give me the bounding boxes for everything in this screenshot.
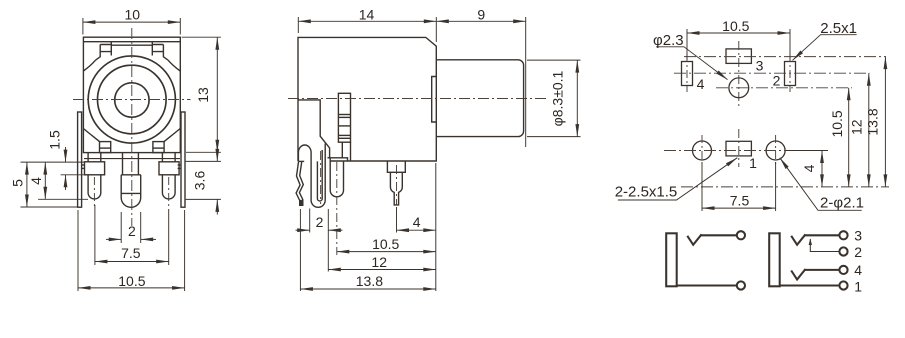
front view center pin xyxy=(122,153,124,175)
dim 5 left front view xyxy=(21,206,78,208)
schematic pin4 circle xyxy=(839,266,847,274)
dim 10.5 footprint right xyxy=(848,88,850,187)
svg-text:2: 2 xyxy=(854,244,862,260)
footprint right slot pad 2 xyxy=(785,62,796,86)
dim 7.5 bottom front view xyxy=(94,205,96,265)
svg-text:10.5: 10.5 xyxy=(372,236,399,252)
schematic left bottom wire xyxy=(677,284,737,286)
leader 2.5x1 xyxy=(793,35,857,61)
footprint bottom right hole xyxy=(766,141,785,160)
footprint slot vertical ticks xyxy=(686,54,688,92)
svg-text:13.8: 13.8 xyxy=(865,108,881,135)
front view underside line xyxy=(84,158,180,160)
leader 2-2.5x1.5 xyxy=(618,158,737,200)
side view leg3 xyxy=(387,161,405,205)
svg-text:10.5: 10.5 xyxy=(829,110,845,137)
svg-text:9: 9 xyxy=(477,6,485,22)
front view horizontal centerline xyxy=(73,99,191,101)
front view bottom corner fillets xyxy=(83,129,99,142)
svg-text:4: 4 xyxy=(413,214,421,230)
front view left flange xyxy=(78,112,82,207)
svg-text:12: 12 xyxy=(371,254,387,270)
svg-text:5: 5 xyxy=(10,179,26,187)
svg-text:10.5: 10.5 xyxy=(722,18,749,34)
front view body xyxy=(83,37,180,152)
footprint vertical centerline top xyxy=(738,41,740,109)
svg-text:φ2.3: φ2.3 xyxy=(653,32,684,49)
svg-text:3.6: 3.6 xyxy=(192,171,208,191)
footprint centerline side slot row xyxy=(674,72,870,74)
schematic pin2 circle xyxy=(839,247,847,255)
dim 10.5 side view xyxy=(337,251,436,253)
dim extension line shoulders left xyxy=(21,161,85,163)
svg-text:3: 3 xyxy=(854,227,862,243)
svg-text:4: 4 xyxy=(28,177,44,185)
svg-text:2-φ2.1: 2-φ2.1 xyxy=(820,194,864,211)
dim 3.6 right front view xyxy=(186,160,221,162)
schematic pin3 circle xyxy=(839,231,847,239)
dim 7.5 footprint xyxy=(701,162,703,211)
dim 4 side view xyxy=(435,163,437,291)
side view body outline xyxy=(298,37,436,161)
footprint centerline bottom row xyxy=(664,150,828,152)
side view leg2 xyxy=(330,158,343,197)
front view right leg xyxy=(161,153,163,162)
svg-text:2: 2 xyxy=(316,214,324,230)
footprint top slot pad 3 xyxy=(726,49,751,64)
footprint reference line bottom xyxy=(681,186,889,188)
footprint hole phi2.3 xyxy=(729,78,749,98)
side view leg centerlines xyxy=(320,151,322,204)
schematic pin1 circle xyxy=(839,281,847,289)
front view right flange xyxy=(181,112,185,207)
front view bottom tab right xyxy=(153,142,164,153)
footprint centerline top slot row xyxy=(684,56,886,58)
side view shoulder line xyxy=(328,158,348,161)
schematic left switch contact xyxy=(687,234,701,245)
svg-text:3: 3 xyxy=(756,57,764,73)
dim 2 bottom front view xyxy=(120,212,122,243)
schematic left bottom pin circle xyxy=(737,281,745,289)
svg-text:2: 2 xyxy=(128,223,136,239)
front view top tab right xyxy=(152,42,168,61)
dim 13.8 footprint xyxy=(884,57,886,187)
dim 9 side view xyxy=(525,17,527,147)
svg-text:14: 14 xyxy=(359,6,375,22)
footprint left slot pad 4 xyxy=(682,62,693,86)
schematic right pin3 contact xyxy=(791,234,805,245)
svg-text:1: 1 xyxy=(854,278,862,294)
footprint hole vertical ticks xyxy=(701,135,703,166)
leader 2-phi2.1 xyxy=(780,158,862,211)
dim 10.5 bottom front view xyxy=(77,210,79,291)
dim 10.5 footprint top xyxy=(686,29,688,60)
svg-text:10: 10 xyxy=(125,6,141,22)
front view leg centerlines xyxy=(93,177,95,206)
footprint centerline hole row xyxy=(716,87,852,89)
footprint bottom left hole xyxy=(693,141,712,160)
front view vertical centerline xyxy=(131,28,133,226)
side view contact column xyxy=(338,93,350,142)
svg-text:10.5: 10.5 xyxy=(118,273,145,289)
schematic right pin4 contact xyxy=(791,269,805,280)
dim 13 right front view xyxy=(182,36,221,38)
svg-text:2.5x1: 2.5x1 xyxy=(820,20,857,37)
svg-text:4: 4 xyxy=(854,262,862,278)
dim 12 side view xyxy=(328,269,436,271)
footprint bottom slot pad 1 xyxy=(726,141,751,156)
svg-text:1: 1 xyxy=(749,155,757,171)
dim 13.8 side view xyxy=(300,288,435,290)
svg-text:7.5: 7.5 xyxy=(730,192,750,208)
side view barrel xyxy=(436,60,523,137)
svg-text:4: 4 xyxy=(801,164,817,172)
schematic right bottom wire xyxy=(780,284,840,286)
svg-text:7.5: 7.5 xyxy=(121,245,141,261)
side view inner cavity xyxy=(298,100,330,158)
dim 2 side view xyxy=(299,209,301,291)
svg-text:1.5: 1.5 xyxy=(46,130,62,150)
side view horizontal centerline xyxy=(288,98,548,100)
dim 1.5 left front view xyxy=(61,174,85,176)
dim 4 left front view xyxy=(38,198,88,200)
svg-text:13.8: 13.8 xyxy=(356,273,383,289)
side view hook lug dome and U xyxy=(298,144,325,208)
schematic pin2 branch xyxy=(810,239,839,252)
front view bottom tab left xyxy=(100,142,111,153)
svg-text:12: 12 xyxy=(848,119,864,135)
dim 14 side view xyxy=(297,17,299,33)
front view barrel circles xyxy=(88,56,175,143)
front view top tab left xyxy=(96,42,112,61)
schematic left sleeve xyxy=(666,233,677,286)
svg-text:13: 13 xyxy=(195,87,211,103)
svg-text:2: 2 xyxy=(773,72,781,88)
svg-text:4: 4 xyxy=(697,76,705,92)
dim 10 top front view xyxy=(82,18,84,35)
schematic right sleeve xyxy=(769,233,780,286)
dim 4 footprint xyxy=(786,150,828,152)
side view spring tab xyxy=(296,162,303,205)
front view left leg xyxy=(87,153,89,162)
leader phi2.3 xyxy=(656,47,728,80)
side view barrel notch xyxy=(432,77,437,123)
dim phi8.3 side view xyxy=(527,59,581,61)
footprint vertical centerline bottom xyxy=(738,129,740,167)
svg-text:φ8.3±0.1: φ8.3±0.1 xyxy=(549,70,565,126)
svg-text:2-2.5x1.5: 2-2.5x1.5 xyxy=(615,184,678,201)
schematic left top pin circle xyxy=(737,231,745,239)
dim 12 footprint xyxy=(868,73,870,187)
schematic left top wire xyxy=(701,234,737,236)
